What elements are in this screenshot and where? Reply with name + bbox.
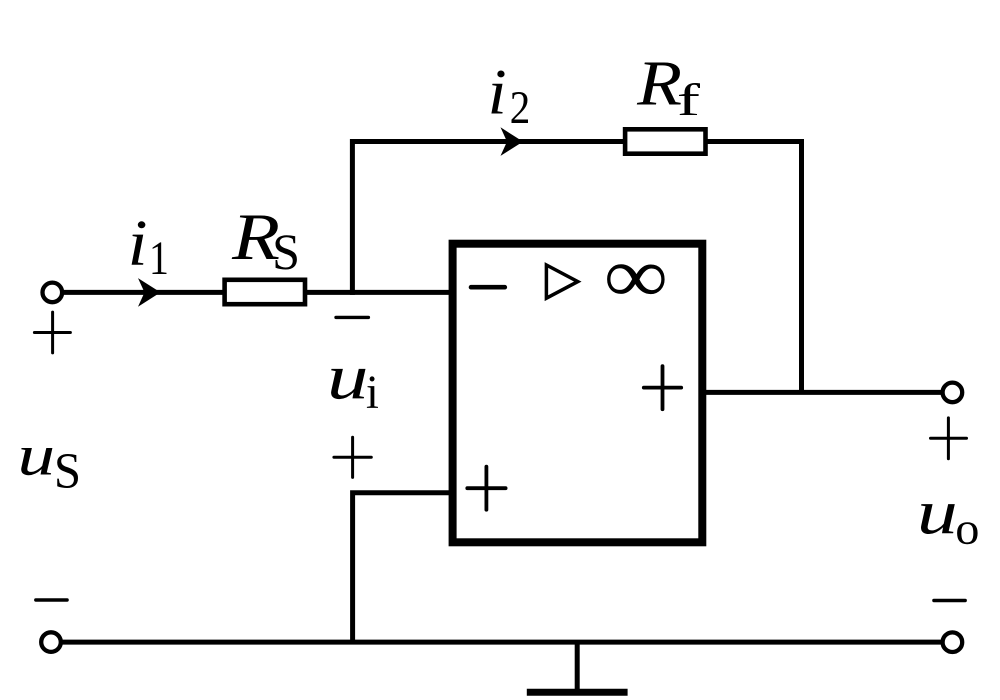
label RS letter R — [232, 216, 279, 259]
plus polarity output — [931, 418, 967, 459]
op-amp plus input mark — [467, 467, 505, 510]
plus polarity input source — [34, 312, 70, 353]
wire input left segment — [62, 290, 224, 295]
label i1 subscript 1 — [152, 242, 166, 274]
op-amp triangle symbol — [546, 265, 577, 298]
label i2 letter i — [491, 70, 504, 113]
terminal bottom-left — [41, 632, 61, 652]
arrow i2 — [501, 127, 524, 156]
label Rf letter R — [637, 62, 681, 104]
ground bar — [527, 689, 628, 696]
label Rf subscript f — [679, 83, 700, 115]
resistor Rf — [625, 129, 705, 153]
minus polarity at node — [336, 316, 368, 319]
label RS subscript S — [276, 235, 297, 269]
plus polarity ui — [334, 437, 371, 477]
wire bottom rail — [61, 640, 943, 645]
ground stub — [575, 642, 580, 692]
wire resistor to op-amp — [305, 290, 453, 295]
wire output — [702, 390, 943, 395]
label i1 letter i — [132, 221, 146, 264]
terminal bottom-right — [943, 632, 963, 652]
op-amp infinity symbol — [607, 264, 664, 294]
label uS letter u — [21, 448, 52, 475]
minus polarity bottom-left — [36, 598, 67, 601]
terminal output top-right — [943, 383, 963, 403]
wire Rf to right corner and down to output — [706, 142, 802, 393]
wire feedback up and top — [352, 142, 626, 295]
op-amp U1 body — [453, 244, 703, 543]
minus polarity bottom-right — [934, 599, 965, 602]
label uo letter u — [921, 504, 955, 534]
label ui subscript i — [367, 376, 378, 407]
op-amp plus output mark — [644, 366, 681, 409]
label uS subscript S — [57, 454, 78, 488]
terminal input top-left — [43, 283, 63, 303]
label uo subscript o — [957, 522, 978, 544]
label i2 subscript 2 — [511, 92, 527, 123]
resistor RS — [225, 280, 305, 304]
op-amp minus input mark — [471, 285, 505, 290]
wire noninverting input — [353, 493, 453, 644]
arrow i1 — [138, 278, 161, 307]
label ui letter u — [331, 369, 365, 399]
